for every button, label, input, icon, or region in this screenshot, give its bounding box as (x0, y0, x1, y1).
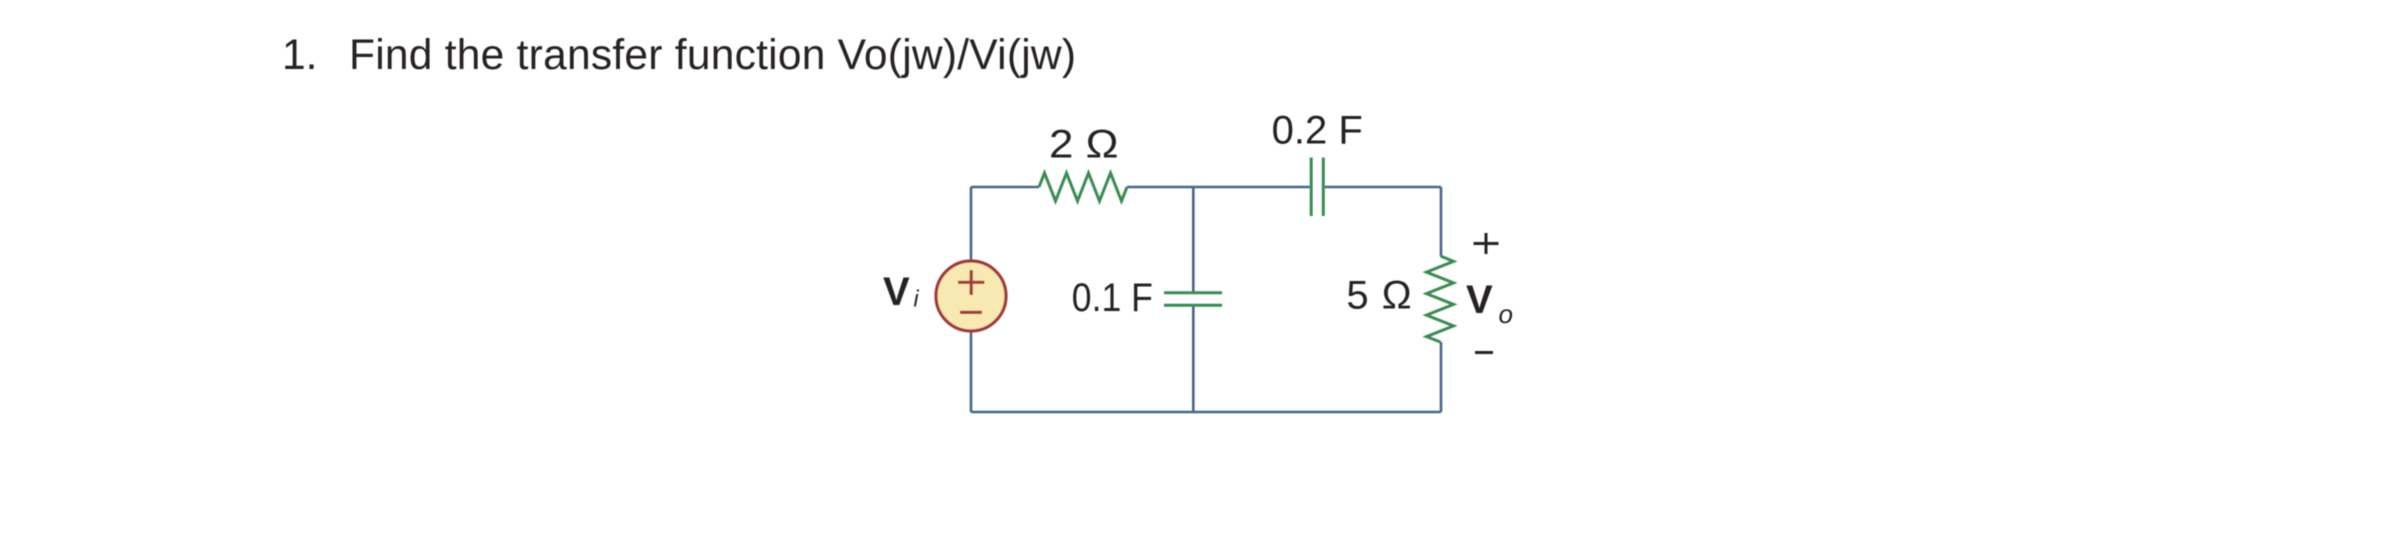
svg-text:1.: 1. (282, 32, 317, 79)
svg-text:0.1 F: 0.1 F (1072, 276, 1153, 320)
svg-text:i: i (914, 286, 920, 312)
svg-text:2 Ω: 2 Ω (1049, 122, 1119, 166)
svg-text:Find the transfer function Vo(: Find the transfer function Vo(jw)/Vi(jw) (349, 32, 1076, 79)
svg-text:o: o (1499, 299, 1513, 329)
svg-text:V: V (883, 270, 910, 314)
svg-text:5 Ω: 5 Ω (1346, 274, 1412, 318)
svg-text:0.2 F: 0.2 F (1272, 109, 1363, 153)
svg-text:V: V (1466, 278, 1493, 322)
